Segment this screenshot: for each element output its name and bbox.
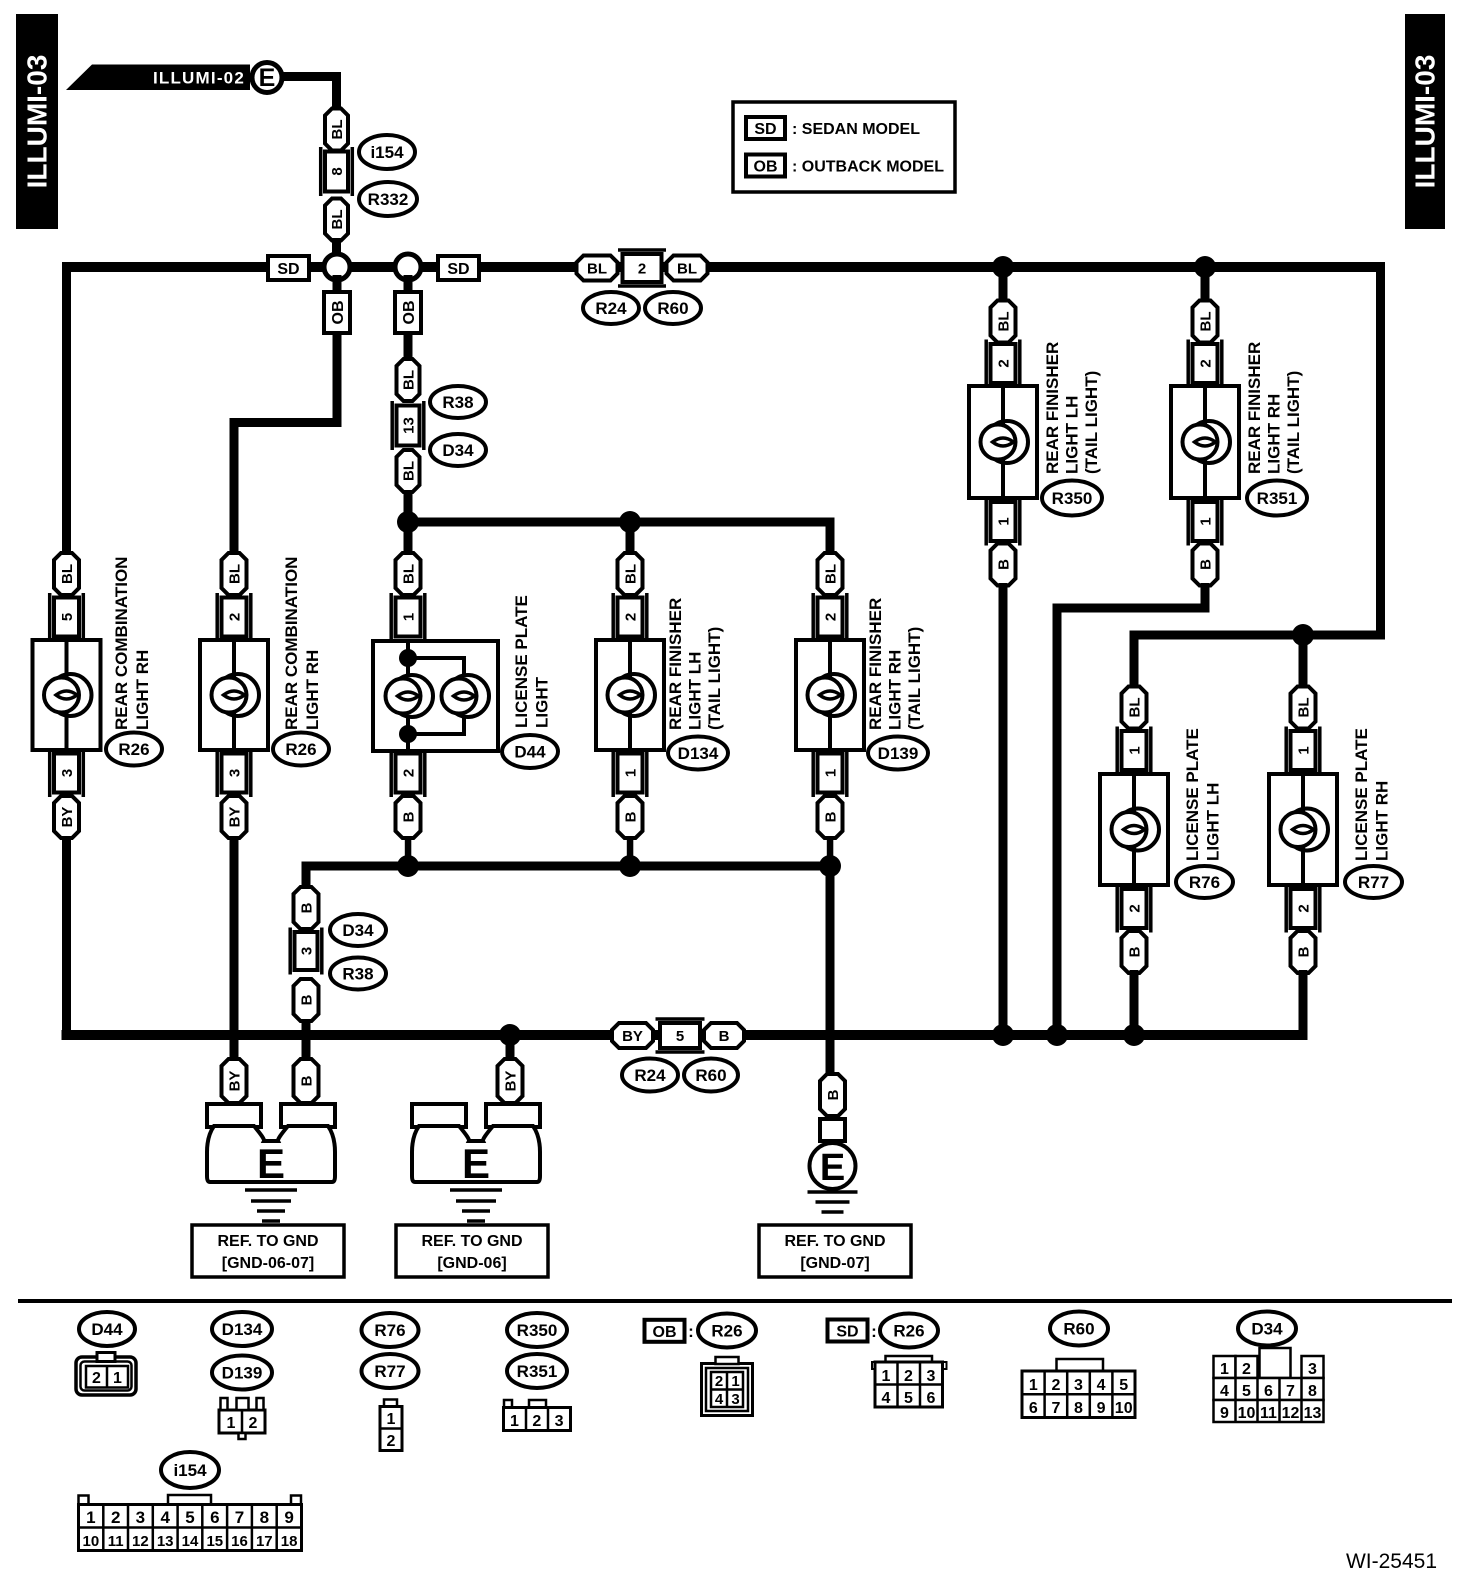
- tag OB (outback) A: [324, 275, 350, 333]
- svg-text:R24: R24: [595, 299, 627, 318]
- svg-text:4: 4: [882, 1390, 891, 1407]
- tag OB (pinout): [645, 1320, 694, 1342]
- svg-text:2: 2: [532, 1413, 541, 1430]
- svg-text:R26: R26: [118, 740, 149, 759]
- svg-text:6: 6: [927, 1390, 936, 1407]
- junction dot: [397, 855, 419, 877]
- svg-text:D44: D44: [91, 1320, 123, 1339]
- svg-text:LIGHT LH: LIGHT LH: [686, 652, 705, 730]
- svg-text:LICENSE PLATE: LICENSE PLATE: [512, 595, 531, 728]
- lamp R351 rear finisher light RH (pin BL): [1193, 301, 1218, 343]
- oval R350: [1042, 481, 1102, 516]
- drawing number WI-25451: [1346, 1550, 1437, 1573]
- svg-text:17: 17: [256, 1533, 273, 1550]
- lamp D134 pin 1: [613, 749, 647, 797]
- wire down to D44: [404, 522, 413, 553]
- mid distribution rail: [404, 518, 831, 527]
- lamp R77 pin 1: [1286, 727, 1320, 775]
- svg-text:5: 5: [1119, 1377, 1128, 1394]
- oval R351 (pinout): [507, 1354, 567, 1388]
- lamp R26 body: [33, 640, 101, 750]
- svg-text:15: 15: [206, 1533, 223, 1550]
- oval D44: [502, 735, 558, 768]
- svg-text:SD: SD: [277, 261, 299, 278]
- svg-text:2: 2: [1296, 904, 1313, 912]
- svg-text:1: 1: [1198, 517, 1215, 525]
- svg-text:i154: i154: [173, 1461, 207, 1480]
- svg-text:1: 1: [1296, 746, 1313, 754]
- svg-text:E: E: [259, 64, 276, 92]
- ground terminal E (GND-06): [412, 1104, 540, 1221]
- wire D134 B to rail: [627, 836, 634, 866]
- junction dot: [1292, 624, 1314, 646]
- lamp R350 pin 2: [986, 340, 1020, 388]
- tag SD (sedan): [268, 256, 309, 280]
- svg-text:LICENSE PLATE: LICENSE PLATE: [1183, 728, 1202, 861]
- ground terminal E (GND-06-07): [207, 1104, 335, 1221]
- svg-text:3: 3: [1074, 1377, 1083, 1394]
- svg-text:(TAIL LIGHT): (TAIL LIGHT): [905, 627, 924, 730]
- lamp D44 pin 2: [391, 749, 425, 797]
- wire label BL: [397, 450, 420, 492]
- oval i154: [359, 135, 415, 169]
- wire label B: [294, 979, 319, 1021]
- svg-text:1: 1: [823, 769, 840, 777]
- svg-text:OB: OB: [330, 301, 347, 325]
- svg-text:R60: R60: [657, 299, 688, 318]
- svg-text:1: 1: [227, 1415, 236, 1432]
- svg-text:LIGHT LH: LIGHT LH: [1063, 396, 1082, 474]
- oval R24: [583, 292, 639, 324]
- svg-text:B: B: [299, 902, 316, 913]
- svg-text:R26: R26: [893, 1322, 924, 1341]
- svg-text:E: E: [820, 1147, 845, 1189]
- oval R26: [273, 733, 329, 766]
- svg-text:BL: BL: [401, 461, 418, 481]
- svg-text:BL: BL: [677, 261, 697, 278]
- svg-text:SD: SD: [836, 1324, 858, 1341]
- svg-text:5: 5: [904, 1390, 913, 1407]
- svg-text:10: 10: [1238, 1405, 1256, 1422]
- svg-text:2: 2: [387, 1433, 396, 1450]
- junction dot: [992, 1024, 1014, 1046]
- svg-text:REAR COMBINATION: REAR COMBINATION: [112, 557, 131, 730]
- wire label BL: [325, 199, 348, 241]
- connector view R26 outback: [702, 1357, 753, 1416]
- connector pin 13 (R38/D34): [392, 401, 424, 450]
- svg-text:E: E: [462, 1140, 490, 1187]
- wire bus2 to ground 2: [506, 1035, 515, 1060]
- wire label B at ground 1: [294, 1059, 319, 1103]
- svg-text:16: 16: [231, 1533, 248, 1550]
- svg-text:B: B: [623, 811, 640, 822]
- lamp D139 pin 1: [813, 749, 847, 797]
- svg-text:LIGHT LH: LIGHT LH: [1204, 783, 1223, 861]
- svg-text:8: 8: [329, 167, 346, 175]
- svg-text:R24: R24: [634, 1066, 666, 1085]
- svg-text:1: 1: [401, 613, 418, 621]
- svg-text:4: 4: [160, 1508, 170, 1527]
- wire B to ground 1: [302, 1019, 311, 1104]
- svg-text:B: B: [823, 811, 840, 822]
- lamp R76 pin 2: [1117, 885, 1151, 933]
- junction dot: [619, 855, 641, 877]
- lamp R351 pin B: [1193, 544, 1218, 586]
- inline splice BY-5-B (R24/R60): [612, 1019, 744, 1052]
- svg-text:4: 4: [1220, 1383, 1229, 1400]
- svg-text:7: 7: [1286, 1383, 1295, 1400]
- lamp R350 rear finisher light LH (pin BL): [991, 301, 1016, 343]
- oval R350 (pinout): [507, 1313, 567, 1347]
- svg-text:REAR FINISHER: REAR FINISHER: [1245, 342, 1264, 474]
- label LICENSE PLATE LIGHT RH: [1352, 728, 1392, 861]
- svg-text:5: 5: [1242, 1383, 1251, 1400]
- wire from BL to mid rail: [404, 490, 413, 524]
- svg-text:OB: OB: [653, 1324, 677, 1341]
- svg-text:14: 14: [182, 1533, 199, 1550]
- flag to ILLUMI-02: [66, 65, 250, 91]
- wire rail elbow down to connector 3: [302, 862, 311, 888]
- svg-text:BL: BL: [1296, 698, 1313, 718]
- svg-text:2: 2: [715, 1373, 723, 1390]
- svg-text:3: 3: [555, 1413, 564, 1430]
- svg-text:BL: BL: [329, 210, 346, 230]
- label REAR FINISHER LIGHT LH (TAIL LIGHT): [1043, 342, 1101, 474]
- wire from E to i154 column: [281, 72, 341, 110]
- svg-text:18: 18: [281, 1533, 298, 1550]
- svg-text:LIGHT: LIGHT: [533, 676, 552, 728]
- svg-text:BL: BL: [587, 261, 607, 278]
- svg-text:1: 1: [1029, 1377, 1038, 1394]
- wire bus1 to R351: [1201, 267, 1210, 303]
- oval R76 (pinout): [362, 1313, 419, 1347]
- svg-text:BL: BL: [401, 564, 418, 584]
- svg-text:LIGHT RH: LIGHT RH: [1265, 394, 1284, 474]
- svg-text:2: 2: [823, 613, 840, 621]
- connector view i154: [79, 1495, 302, 1551]
- svg-text:B: B: [719, 1028, 730, 1045]
- oval i154 (pinout): [161, 1452, 219, 1488]
- svg-text:2: 2: [227, 613, 244, 621]
- label REAR FINISHER LIGHT RH (TAIL LIGHT): [866, 598, 924, 730]
- svg-text:2: 2: [996, 359, 1013, 367]
- svg-text:3: 3: [59, 769, 76, 777]
- svg-text:1: 1: [510, 1413, 519, 1430]
- svg-text:D44: D44: [514, 743, 546, 762]
- svg-text:LIGHT RH: LIGHT RH: [1373, 781, 1392, 861]
- svg-text:REAR COMBINATION: REAR COMBINATION: [282, 557, 301, 730]
- lamp D134 pin 2: [613, 593, 647, 641]
- lamp D139 body: [796, 640, 864, 750]
- wire label BY: [498, 1059, 523, 1103]
- svg-text:REF. TO GND: REF. TO GND: [784, 1233, 885, 1250]
- lamp R351 body: [1171, 386, 1239, 498]
- ref box GND-06-07: [192, 1225, 344, 1277]
- svg-text:R77: R77: [374, 1362, 405, 1381]
- svg-text:7: 7: [235, 1508, 244, 1527]
- oval R38: [330, 958, 386, 990]
- svg-text:13: 13: [401, 417, 418, 434]
- svg-text:R351: R351: [1257, 489, 1298, 508]
- svg-text:R38: R38: [442, 393, 473, 412]
- junction dot: [619, 511, 641, 533]
- svg-text:R26: R26: [285, 740, 316, 759]
- svg-text:10: 10: [1115, 1400, 1133, 1417]
- label REAR COMBINATION LIGHT RH: [112, 557, 152, 730]
- svg-text:REF. TO GND: REF. TO GND: [217, 1233, 318, 1250]
- svg-text:: OUTBACK MODEL: : OUTBACK MODEL: [792, 159, 944, 176]
- svg-text:2: 2: [1051, 1377, 1060, 1394]
- wire from BL to bus 1: [332, 238, 341, 264]
- svg-text:BL: BL: [823, 564, 840, 584]
- lamp R350 pin 1: [986, 498, 1020, 546]
- lamp R76 pin B: [1122, 931, 1147, 973]
- oval D34: [330, 914, 386, 946]
- svg-text:9: 9: [1220, 1405, 1229, 1422]
- label LICENSE PLATE LIGHT: [512, 595, 552, 728]
- svg-text:2: 2: [623, 613, 640, 621]
- wire R77 B to bus 2 end: [1299, 970, 1308, 1040]
- svg-text:1: 1: [731, 1373, 739, 1390]
- oval R38: [430, 386, 486, 418]
- connector view D134/D139: [219, 1398, 265, 1439]
- svg-text:(TAIL LIGHT): (TAIL LIGHT): [705, 627, 724, 730]
- svg-text:1: 1: [623, 769, 640, 777]
- wire OB-A down-left to rear combination lamp 2: [230, 331, 342, 553]
- svg-text:D134: D134: [678, 744, 719, 763]
- svg-text:BY: BY: [59, 807, 76, 828]
- svg-text:2: 2: [904, 1368, 913, 1385]
- svg-text:B: B: [1198, 559, 1215, 570]
- svg-text:3: 3: [927, 1368, 936, 1385]
- svg-text:BY: BY: [227, 807, 244, 828]
- svg-text:R38: R38: [342, 965, 373, 984]
- svg-text:9: 9: [284, 1508, 293, 1527]
- svg-text:2: 2: [92, 1370, 101, 1387]
- junction dot: [499, 1024, 521, 1046]
- connector view R26 sedan: [872, 1356, 947, 1407]
- lamp D134 body: [596, 640, 664, 750]
- oval R76: [1176, 866, 1233, 898]
- svg-text:12: 12: [132, 1533, 149, 1550]
- wire left drop from bus 1 to R26 lamp: [62, 262, 71, 553]
- svg-text::: :: [871, 1322, 877, 1341]
- oval D134: [668, 737, 728, 770]
- wire R76 B to bus 2: [1130, 970, 1139, 1040]
- svg-text:ILLUMI-03: ILLUMI-03: [1410, 55, 1441, 189]
- wire D139 down to ground E: [826, 866, 835, 1074]
- wire bus1 to R350: [999, 267, 1008, 303]
- svg-text:8: 8: [1074, 1400, 1083, 1417]
- lamp D134 rear finisher light LH (pin BL): [618, 553, 643, 595]
- svg-text:REF. TO GND: REF. TO GND: [421, 1233, 522, 1250]
- svg-text:2: 2: [111, 1508, 120, 1527]
- lamp R350 pin B: [991, 544, 1016, 586]
- lamp D44 license plate light (pin BL): [396, 553, 421, 595]
- wire label BL: [325, 109, 348, 151]
- svg-text:3: 3: [136, 1508, 145, 1527]
- svg-text:4: 4: [715, 1391, 724, 1408]
- bus wire (top feed bus): [62, 262, 1385, 272]
- node (open) sedan/outback split A: [324, 254, 350, 280]
- connector pin 3 (D34/R38): [290, 928, 322, 975]
- svg-text:D34: D34: [1251, 1320, 1283, 1339]
- oval R26 SD (pinout): [880, 1314, 938, 1348]
- svg-text:ILLUMI-03: ILLUMI-03: [22, 55, 53, 189]
- inline splice BL-2-BL (R24/R60): [577, 250, 708, 286]
- svg-text:LIGHT RH: LIGHT RH: [886, 650, 905, 730]
- oval R26: [106, 733, 162, 766]
- svg-text:[GND-06]: [GND-06]: [437, 1255, 506, 1272]
- ref box GND-06: [396, 1225, 548, 1277]
- lamp D139 pin B: [818, 796, 843, 838]
- lamp R26b pin 2: [217, 593, 251, 641]
- label REAR FINISHER LIGHT RH (TAIL LIGHT): [1245, 342, 1303, 474]
- oval R351: [1247, 481, 1307, 516]
- separator line: [18, 1299, 1452, 1303]
- oval R26 OB (pinout): [698, 1314, 756, 1348]
- svg-text:LIGHT RH: LIGHT RH: [303, 650, 322, 730]
- svg-text:BL: BL: [1198, 312, 1215, 332]
- svg-text:2: 2: [249, 1415, 258, 1432]
- lamp R76 body: [1100, 774, 1168, 885]
- svg-text:2: 2: [1127, 904, 1144, 912]
- svg-text:8: 8: [1308, 1383, 1317, 1400]
- svg-text:(TAIL LIGHT): (TAIL LIGHT): [1284, 371, 1303, 474]
- wire label BL: [397, 359, 420, 401]
- license feed rail: [1130, 631, 1386, 640]
- svg-text:D34: D34: [442, 441, 474, 460]
- svg-text:1: 1: [1220, 1361, 1229, 1378]
- junction dot: [1046, 1024, 1068, 1046]
- junction dot: [397, 511, 419, 533]
- oval D134 (pinout): [212, 1312, 272, 1346]
- svg-text:2: 2: [1198, 359, 1215, 367]
- label LICENSE PLATE LIGHT LH: [1183, 728, 1223, 861]
- svg-text:E: E: [257, 1140, 285, 1187]
- svg-text:2: 2: [638, 261, 646, 278]
- lamp R26 pin BY: [54, 796, 79, 838]
- wire right drop from bus 1 to license feed: [1376, 262, 1385, 640]
- svg-text:R350: R350: [517, 1321, 558, 1340]
- svg-text:WI-25451: WI-25451: [1346, 1550, 1437, 1573]
- svg-text:OB: OB: [401, 301, 418, 325]
- svg-text:[GND-06-07]: [GND-06-07]: [222, 1255, 314, 1272]
- svg-text:4: 4: [1097, 1377, 1106, 1394]
- svg-text:D34: D34: [342, 921, 374, 940]
- svg-text:BL: BL: [1127, 698, 1144, 718]
- wire lamp2 BY down to ground 1: [230, 836, 239, 1104]
- oval R60: [645, 292, 701, 324]
- ref box GND-07: [759, 1225, 911, 1277]
- tag OB (outback) B: [395, 275, 421, 333]
- svg-text:1: 1: [882, 1368, 891, 1385]
- svg-text:BY: BY: [227, 1071, 244, 1092]
- wire lamp1 BY down to bus 2: [62, 836, 71, 1040]
- wire OB-B down to connector 13: [404, 331, 413, 361]
- ground terminal E (GND-07): [808, 1119, 858, 1212]
- lamp R351 pin 1: [1188, 498, 1222, 546]
- svg-text:OB: OB: [754, 159, 778, 176]
- lamp D44 pin 1: [391, 593, 425, 641]
- svg-text:5: 5: [59, 613, 76, 621]
- lamp R350 body: [969, 386, 1037, 498]
- svg-text:BL: BL: [996, 312, 1013, 332]
- svg-text:7: 7: [1051, 1400, 1060, 1417]
- oval R332: [359, 182, 417, 216]
- svg-text:SD: SD: [447, 261, 469, 278]
- wire D139 B to rail: [827, 836, 834, 866]
- svg-text:SD: SD: [754, 121, 776, 138]
- svg-text:1: 1: [113, 1370, 122, 1387]
- lamp R76 license plate light LH (pin BL): [1122, 687, 1147, 729]
- svg-text:3: 3: [299, 947, 316, 955]
- svg-text:LICENSE PLATE: LICENSE PLATE: [1352, 728, 1371, 861]
- wire R350 B down to bus 2: [999, 583, 1008, 1040]
- svg-text:REAR FINISHER: REAR FINISHER: [666, 598, 685, 730]
- right page banner ILLUMI-03: [1405, 14, 1445, 229]
- connector pin 8 (i154/R332): [321, 147, 353, 196]
- lamp R77 body: [1269, 774, 1337, 885]
- wire rail to R76: [1130, 631, 1139, 688]
- oval D139: [868, 737, 928, 770]
- svg-text:11: 11: [108, 1533, 124, 1550]
- svg-text:5: 5: [185, 1508, 194, 1527]
- svg-text:i154: i154: [370, 143, 404, 162]
- svg-text:: SEDAN MODEL: : SEDAN MODEL: [792, 121, 920, 138]
- svg-text:6: 6: [1264, 1383, 1273, 1400]
- oval R60: [684, 1059, 738, 1092]
- oval R24: [622, 1059, 678, 1092]
- wire R351 B elbow down to bus 2: [1053, 583, 1210, 1040]
- svg-text:B: B: [401, 811, 418, 822]
- svg-text:BY: BY: [503, 1071, 520, 1092]
- svg-text:6: 6: [1029, 1400, 1038, 1417]
- svg-text:R350: R350: [1052, 489, 1093, 508]
- lamp R351 pin 2: [1188, 340, 1222, 388]
- svg-text:R26: R26: [711, 1322, 742, 1341]
- svg-text:B: B: [996, 559, 1013, 570]
- svg-text:R60: R60: [695, 1066, 726, 1085]
- lamp D44 body (two bulbs): [373, 641, 498, 751]
- svg-text:B: B: [299, 1075, 316, 1086]
- oval R77 (pinout): [362, 1354, 419, 1388]
- oval R77: [1345, 866, 1402, 898]
- svg-text:13: 13: [157, 1533, 174, 1550]
- svg-text:REAR FINISHER: REAR FINISHER: [1043, 342, 1062, 474]
- svg-text:BL: BL: [227, 564, 244, 584]
- wire label B: [294, 887, 319, 929]
- svg-text:ILLUMI-02: ILLUMI-02: [153, 69, 245, 88]
- lamp D139 pin 2: [813, 593, 847, 641]
- svg-text:9: 9: [1097, 1400, 1106, 1417]
- wire label B at ground 3: [820, 1074, 845, 1116]
- tag SD (pinout): [828, 1320, 877, 1342]
- lamp R77 pin B: [1291, 931, 1316, 973]
- wire rail to R77: [1299, 635, 1308, 687]
- lamp R26 pin 3: [50, 749, 84, 797]
- svg-text:1: 1: [1127, 746, 1144, 754]
- svg-text:1: 1: [86, 1508, 95, 1527]
- tag SD (sedan): [438, 256, 479, 280]
- left page banner ILLUMI-03: [16, 14, 58, 229]
- svg-text:BL: BL: [401, 370, 418, 390]
- lamp R26b pin BY: [222, 796, 247, 838]
- svg-text:BY: BY: [622, 1028, 643, 1045]
- connector view D34: [1214, 1348, 1324, 1422]
- svg-text:13: 13: [1304, 1405, 1322, 1422]
- svg-text:2: 2: [1242, 1361, 1251, 1378]
